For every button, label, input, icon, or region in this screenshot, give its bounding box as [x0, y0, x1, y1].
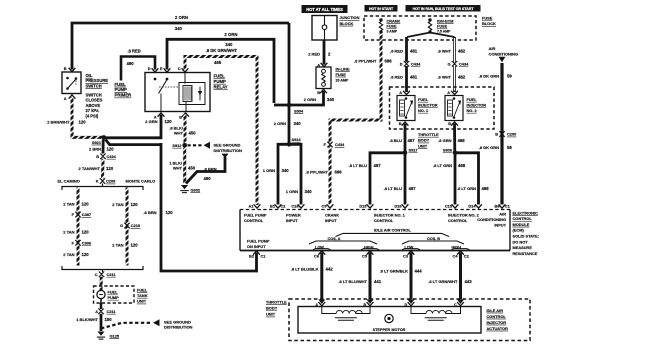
svg-text:.8 BRN: .8 BRN — [204, 166, 217, 171]
ECM pin C6 label — [314, 251, 325, 258]
wire from fuel pump to connector C311 pin A — [100, 303, 103, 309]
wire 1 BLK/WHT 150 (fuel pump to ground G125) — [100, 314, 103, 331]
svg-text:B: B — [364, 303, 367, 307]
label 340 on line 1 — [175, 26, 183, 31]
svg-text:CRANK: CRANK — [387, 19, 401, 23]
label 490 — [204, 176, 212, 181]
connector C434 (body harness) pin B — [96, 154, 116, 160]
label 2 ORN on line 2 — [224, 32, 237, 37]
label 120 — [131, 202, 139, 207]
svg-text:FUSE: FUSE — [336, 72, 347, 77]
wire .8 DK GRN/WHT 465 (relay pin C to ECM pin A1, striped) — [182, 57, 261, 209]
connector C306 pin F — [72, 240, 92, 246]
label 2 BRN/WHT — [47, 120, 70, 125]
wire .8 BLU 467 (injector 1 to splice S917) — [404, 124, 407, 153]
svg-text:A: A — [447, 90, 450, 95]
ECM coil B low label — [402, 245, 420, 249]
svg-text:CONTROL: CONTROL — [244, 218, 264, 223]
svg-text:481: 481 — [410, 49, 418, 54]
svg-text:BLOCK: BLOCK — [482, 21, 496, 26]
wire .8 LT GRN 468 (S906 to ECM pin D14) — [455, 153, 482, 208]
svg-text:BODY: BODY — [418, 138, 430, 143]
relay pin E label — [160, 66, 163, 71]
svg-text:2 TAN: 2 TAN — [63, 252, 74, 257]
wire 2 TAN 120 MONTE CARLO branch (striped) — [126, 188, 129, 266]
ground G125 — [97, 332, 120, 340]
svg-text:BLOCK: BLOCK — [340, 21, 354, 26]
svg-text:2 ORN: 2 ORN — [304, 97, 316, 102]
label 340 — [305, 189, 313, 194]
label 1 ORN — [286, 189, 298, 194]
svg-text:2 ORN: 2 ORN — [224, 32, 237, 37]
label 443 — [465, 279, 473, 284]
label 1 ORN — [263, 168, 275, 173]
stepper motor pin A — [315, 302, 325, 307]
injector 2 pin A label — [447, 90, 450, 95]
svg-text:FUEL: FUEL — [214, 74, 226, 79]
svg-text:UNIT: UNIT — [418, 143, 428, 148]
svg-text:JUNCTION: JUNCTION — [340, 15, 360, 20]
ECM injector no. 2 control section — [448, 212, 480, 223]
air conditioning feed arrow — [499, 57, 506, 62]
svg-text:B: B — [399, 121, 402, 126]
svg-text:120: 120 — [131, 243, 139, 248]
svg-text:UNIT: UNIT — [137, 299, 147, 304]
ECM pin C4 label — [453, 251, 464, 258]
connector C200 pin B — [495, 131, 516, 137]
svg-text:FUSE: FUSE — [437, 25, 448, 29]
stepper motor label — [373, 328, 406, 332]
svg-text:PUMP: PUMP — [214, 79, 227, 84]
svg-text:CONDITIONING: CONDITIONING — [477, 217, 506, 222]
label 340 on line 2 — [225, 42, 233, 47]
ECM power input section — [286, 212, 301, 223]
wire 2 RED 2 (junction block to in-line fuse) — [323, 40, 326, 65]
label .8 LT GRN/WHT — [428, 279, 458, 284]
ECM injector no. 1 control section — [374, 212, 406, 223]
HOT IN RUN BULB TEST OR START header — [406, 6, 480, 12]
label 340 — [294, 121, 302, 126]
EL CAMINO branch label — [58, 178, 80, 183]
wire split from IGN-ECM fuse — [407, 33, 455, 38]
label 481 — [410, 75, 418, 80]
label 150 — [105, 317, 113, 322]
svg-text:340: 340 — [225, 42, 233, 47]
svg-text:C1: C1 — [505, 203, 511, 208]
svg-text:C6: C6 — [314, 253, 320, 258]
wire stub to ground distribution from S912 — [188, 142, 211, 149]
svg-text:C: C — [454, 303, 457, 307]
see ground distribution note (lower) — [164, 320, 193, 330]
svg-text:2 TAN: 2 TAN — [112, 202, 123, 207]
wire .8 LT GRN/WHT 443 (ECM C4 to IAC coil B high) — [457, 253, 464, 305]
svg-text:A1: A1 — [249, 203, 255, 208]
svg-text:C2: C2 — [281, 203, 287, 208]
svg-text:NO. 2: NO. 2 — [467, 108, 478, 113]
svg-text:A: A — [64, 96, 67, 101]
svg-text:120: 120 — [82, 252, 90, 257]
ECM coil A high label — [361, 245, 379, 249]
branch bracket (top) — [62, 184, 143, 191]
wire .8 RED 490 (fuel pump primer to relay pin D) — [121, 57, 158, 81]
ECM pin D14 label — [468, 203, 476, 208]
svg-text:.8 LT GRN: .8 LT GRN — [457, 186, 476, 191]
label 465 — [214, 60, 222, 65]
svg-text:444: 444 — [415, 269, 423, 274]
ECM pin B2 label — [249, 251, 260, 258]
svg-text:.8 LT BLU: .8 LT BLU — [384, 186, 402, 191]
svg-text:IDLE AIR: IDLE AIR — [487, 308, 504, 313]
svg-text:G: G — [447, 62, 450, 67]
label .8 DK GRN/WHT — [206, 48, 238, 53]
label .8 RED — [128, 49, 141, 54]
IAC coil A winding — [322, 307, 370, 321]
svg-text:C9: C9 — [322, 203, 328, 208]
label .8 RED — [390, 75, 403, 80]
wire .8 GRN 468 (injector 2 to splice S906) — [453, 124, 456, 153]
label .8 LT GRN/BLK — [380, 269, 408, 274]
svg-text:D15: D15 — [359, 203, 367, 208]
IGN-ECM fuse label — [437, 19, 453, 33]
label 2 TAN — [63, 201, 74, 206]
svg-text:D16: D16 — [394, 203, 402, 208]
svg-text:120: 120 — [107, 146, 115, 151]
svg-text:COIL B: COIL B — [427, 236, 440, 241]
ECM pin C9 label — [322, 203, 328, 208]
label .8 LT BLU — [384, 186, 402, 191]
svg-text:.8 DK GRN/WHT: .8 DK GRN/WHT — [206, 48, 238, 53]
svg-text:IDLE AIR CONTROL: IDLE AIR CONTROL — [374, 227, 411, 232]
svg-text:RESISTANCE: RESISTANCE — [513, 251, 538, 256]
label .8 PPL/WHT — [306, 170, 329, 175]
ECM pin C2 label (bottom) — [464, 253, 470, 258]
svg-text:B: B — [448, 121, 451, 126]
label 2 TAN/WHT — [79, 166, 101, 171]
svg-text:S912: S912 — [172, 143, 182, 148]
svg-text:INJECTOR: INJECTOR — [418, 103, 438, 108]
svg-text:340: 340 — [294, 121, 302, 126]
svg-text:B8: B8 — [495, 203, 501, 208]
ECM pin D15 label — [359, 203, 367, 208]
label 340 — [282, 168, 290, 173]
label 120 — [131, 243, 139, 248]
svg-text:468: 468 — [458, 138, 466, 143]
label 481 — [410, 49, 418, 54]
svg-text:FUSE: FUSE — [387, 25, 398, 29]
svg-text:A: A — [95, 309, 98, 314]
connector C434 pin F — [324, 142, 346, 148]
label 468 — [482, 186, 490, 191]
label 467 — [374, 163, 382, 168]
svg-text:INPUT: INPUT — [325, 218, 337, 223]
svg-text:.8 RED: .8 RED — [128, 49, 141, 54]
svg-text:RELAY: RELAY — [214, 85, 228, 90]
svg-text:2 RED: 2 RED — [308, 52, 320, 57]
svg-text:C1: C1 — [261, 253, 267, 258]
svg-text:FUEL: FUEL — [115, 82, 127, 87]
svg-text:.8 LT GRN: .8 LT GRN — [433, 163, 452, 168]
label .8 DK GRN — [479, 145, 499, 150]
label .8 LT BLU — [349, 163, 367, 168]
svg-text:PRIMER: PRIMER — [115, 93, 133, 98]
svg-text:S904: S904 — [294, 108, 304, 113]
wire 2 ORN 340 (in-line fuse to splice S904) — [274, 91, 324, 105]
wire .8 LT BLU 467 (S917 to ECM pin D15) — [367, 153, 405, 208]
svg-text:AIR: AIR — [499, 211, 506, 216]
svg-text:20 AMP: 20 AMP — [336, 78, 349, 82]
ECM pin B1 label — [270, 203, 276, 208]
svg-text:340: 340 — [282, 168, 290, 173]
svg-text:STEPPER MOTOR: STEPPER MOTOR — [373, 328, 406, 332]
wire 1 BLK/WHT 450 (S912 to ground G302, striped) — [183, 148, 186, 184]
svg-text:C15: C15 — [445, 203, 453, 208]
label 442 — [326, 267, 334, 272]
svg-text:C: C — [95, 272, 98, 277]
label .8 LT GRN — [433, 163, 452, 168]
svg-text:HOT AT ALL TIMES: HOT AT ALL TIMES — [306, 7, 343, 12]
ECM pin C16 label — [291, 203, 299, 208]
CRANK fuse 3 AMP — [379, 18, 382, 33]
svg-text:CRANK: CRANK — [325, 212, 339, 217]
svg-text:.8 DK GRN: .8 DK GRN — [479, 73, 499, 78]
svg-text:ABOVE: ABOVE — [86, 103, 101, 108]
HOT IN START header — [365, 6, 397, 12]
svg-text:(ECM): (ECM) — [513, 228, 525, 233]
svg-text:120: 120 — [82, 229, 90, 234]
svg-text:MONTE CARLO: MONTE CARLO — [126, 178, 156, 183]
svg-text:1 BLK/: 1 BLK/ — [169, 160, 183, 165]
label 696 — [335, 170, 343, 175]
ECM coil B group — [402, 236, 464, 244]
svg-text:INPUT: INPUT — [494, 222, 506, 227]
ECM air conditioning input section — [477, 211, 506, 227]
svg-text:2 ORN: 2 ORN — [274, 121, 286, 126]
label 1 BLK/WHT — [169, 160, 183, 170]
svg-text:B: B — [495, 132, 498, 137]
svg-text:465: 465 — [214, 60, 222, 65]
MONTE CARLO branch label — [126, 178, 156, 183]
stepper motor pin C — [454, 302, 464, 307]
fuse block box (dashed) — [364, 16, 476, 40]
svg-text:S906: S906 — [443, 148, 453, 153]
fuel injector no. 2 — [445, 91, 463, 121]
svg-text:C5: C5 — [362, 253, 368, 258]
svg-text:D14: D14 — [468, 203, 476, 208]
IAC coil B winding — [411, 307, 461, 321]
svg-text:K: K — [96, 179, 99, 184]
connector C434 pin D — [400, 61, 421, 67]
svg-text:.8 LT GRN/BLK: .8 LT GRN/BLK — [380, 269, 408, 274]
svg-text:INJECTOR NO. 2: INJECTOR NO. 2 — [448, 212, 480, 217]
fuel tank unit box (dashed) — [94, 286, 135, 303]
svg-text:.8 LT BLU: .8 LT BLU — [349, 163, 367, 168]
splice S906 — [443, 148, 457, 156]
svg-text:FUEL: FUEL — [108, 290, 119, 295]
label .8 RED — [390, 49, 403, 54]
wire .8 LT BLU/WHT 441 (ECM C5 to IAC coil A high) — [367, 253, 374, 305]
svg-text:.8 RED: .8 RED — [390, 49, 403, 54]
svg-text:340: 340 — [305, 189, 313, 194]
svg-text:468: 468 — [482, 186, 490, 191]
ECM pin D16 label — [394, 203, 402, 208]
svg-text:EL CAMINO: EL CAMINO — [58, 178, 80, 183]
wire 2 ORN 340 feed line 1 (fuse S904 to oil pressure switch) — [69, 23, 289, 72]
svg-text:G302: G302 — [191, 187, 201, 192]
svg-text:ELECTRONIC: ELECTRONIC — [513, 210, 538, 215]
svg-text:B: B — [96, 154, 99, 159]
svg-text:C306: C306 — [82, 241, 92, 246]
label 2 GRN — [145, 119, 157, 124]
relay pin C label — [178, 66, 181, 71]
svg-text:DISTRIBUTION: DISTRIBUTION — [164, 325, 193, 330]
svg-text:AIR: AIR — [489, 46, 496, 51]
IGN-ECM fuse 7.5 AMP — [428, 18, 431, 33]
svg-text:THROTTLE: THROTTLE — [266, 299, 287, 304]
fuel pump motor M — [97, 290, 105, 303]
label 120 — [106, 166, 114, 171]
label 468 — [458, 163, 466, 168]
svg-text:NO. 1: NO. 1 — [418, 108, 429, 113]
connector C387 pin F — [72, 212, 92, 218]
svg-text:B: B — [64, 66, 67, 71]
svg-text:.8 PPL/WHT: .8 PPL/WHT — [306, 170, 329, 175]
ECM pin B8 label — [495, 203, 501, 208]
svg-text:UNIT: UNIT — [266, 312, 276, 317]
svg-text:340: 340 — [327, 97, 335, 102]
svg-text:340: 340 — [175, 26, 183, 31]
svg-text:C219: C219 — [131, 223, 141, 228]
label 2 ORN — [304, 97, 316, 102]
label 120 — [166, 210, 174, 215]
svg-text:.8 LT GRN/WHT: .8 LT GRN/WHT — [428, 279, 458, 284]
svg-text:482: 482 — [458, 75, 466, 80]
label .8 BLK/WHT — [169, 125, 184, 135]
wire 1 ORN 340 (S914 to ECM pin C16) — [289, 144, 304, 208]
svg-text:.8 DK GRN: .8 DK GRN — [479, 145, 499, 150]
svg-text:D: D — [405, 303, 408, 307]
label 441 — [374, 279, 382, 284]
electronic control module box — [240, 210, 510, 251]
svg-text:S921: S921 — [92, 140, 102, 145]
svg-text:120: 120 — [106, 166, 114, 171]
svg-text:696: 696 — [335, 170, 343, 175]
connector C219 pin G — [120, 223, 141, 229]
ECM coil A low label — [313, 245, 331, 249]
wire 2 BRN 120 (S921 to connector C434) — [102, 140, 105, 154]
svg-text:C434: C434 — [107, 154, 117, 159]
svg-text:120: 120 — [79, 120, 87, 125]
svg-text:C: C — [178, 66, 181, 71]
branch bracket (bottom) — [62, 266, 143, 272]
svg-text:S914: S914 — [292, 137, 302, 142]
svg-text:CONTROL: CONTROL — [513, 216, 533, 221]
svg-text:HOT IN START: HOT IN START — [369, 7, 394, 11]
wire 2 TAN 120 EL CAMINO branch (striped) — [77, 188, 80, 266]
wire .8 BLK/WHT 450 (relay pin B to splice S912, striped) — [184, 115, 187, 145]
svg-text:MODULE: MODULE — [513, 222, 530, 227]
svg-text:B2: B2 — [249, 253, 255, 258]
wire .8 LT BLU/BLK 442 (ECM C6 to IAC coil A low) — [318, 253, 325, 305]
svg-text:FUEL: FUEL — [418, 97, 429, 102]
svg-text:C4: C4 — [453, 253, 459, 258]
ECM pin C5 label — [362, 251, 373, 258]
idle air control actuator label — [487, 308, 509, 331]
svg-text:.8 BLK/: .8 BLK/ — [169, 125, 184, 130]
label .8 WHT — [437, 75, 451, 80]
label .8 GRN — [438, 138, 451, 143]
label 2 TAN — [112, 243, 123, 248]
label 120 — [165, 119, 173, 124]
svg-text:SOLID STATE:: SOLID STATE: — [513, 234, 539, 239]
svg-text:120: 120 — [131, 202, 139, 207]
ECM coil A group — [309, 236, 377, 244]
svg-text:.8 LT BLU/WHT: .8 LT BLU/WHT — [338, 279, 367, 284]
throttle body unit box (dashed, stepper motor) — [289, 299, 530, 341]
svg-text:490: 490 — [204, 176, 212, 181]
relay pin A label — [154, 113, 165, 120]
label 2 — [328, 52, 331, 57]
svg-text:A: A — [315, 303, 318, 307]
svg-text:467: 467 — [374, 163, 382, 168]
svg-text:C311: C311 — [107, 309, 117, 314]
label .8 WHT — [437, 49, 451, 54]
svg-text:2 TAN: 2 TAN — [63, 201, 74, 206]
ECM crank input section — [325, 212, 339, 223]
svg-text:450: 450 — [189, 131, 197, 136]
fuel pump relay K1 — [145, 73, 210, 112]
svg-text:1 ORN: 1 ORN — [263, 168, 275, 173]
in-line fuse pin B — [317, 89, 327, 95]
label 468 — [458, 138, 466, 143]
svg-text:C434: C434 — [335, 142, 345, 147]
svg-text:27 kPa: 27 kPa — [86, 108, 100, 113]
svg-text:.8 GRN: .8 GRN — [438, 138, 451, 143]
svg-text:468: 468 — [458, 163, 466, 168]
label 444 — [415, 269, 423, 274]
wire 1 ORN 340 (S914 to ECM pin B1) — [275, 144, 289, 208]
svg-text:FUEL: FUEL — [137, 287, 148, 292]
svg-text:467: 467 — [408, 138, 416, 143]
svg-text:ACTUATOR: ACTUATOR — [487, 326, 509, 331]
svg-text:C434: C434 — [411, 62, 421, 67]
wire .8 RED 481 (IGN-ECM fuse to fuel injector no. 1) — [405, 37, 408, 92]
label 120 — [82, 229, 90, 234]
svg-text:450: 450 — [188, 166, 196, 171]
junction block — [312, 16, 337, 41]
label 2 TAN — [63, 252, 74, 257]
stepper motor pin B — [364, 302, 374, 307]
wire .8 DK GRN 59 (A/C to ECM pin C1) — [499, 63, 506, 208]
ECM pin C2 label — [281, 203, 287, 208]
label 696 — [385, 58, 393, 63]
svg-text:.8 WHT: .8 WHT — [437, 75, 451, 80]
svg-text:B1: B1 — [270, 203, 276, 208]
wire stub to ground distribution (lower) — [101, 319, 160, 328]
label 467 — [408, 138, 416, 143]
svg-text:BODY: BODY — [266, 306, 278, 311]
svg-text:441: 441 — [374, 279, 382, 284]
svg-text:ON INPUT: ON INPUT — [247, 244, 266, 249]
label 482 — [458, 75, 466, 80]
svg-text:INJECTOR: INJECTOR — [487, 320, 507, 325]
svg-text:(4 PSI): (4 PSI) — [86, 114, 99, 119]
svg-text:2 TAN: 2 TAN — [63, 229, 74, 234]
pin A of oil pressure switch — [64, 95, 76, 101]
ECM pin C1 label — [505, 203, 511, 208]
svg-text:442: 442 — [326, 267, 334, 272]
svg-text:DO NOT: DO NOT — [513, 239, 529, 244]
svg-text:PUMP: PUMP — [115, 87, 128, 92]
